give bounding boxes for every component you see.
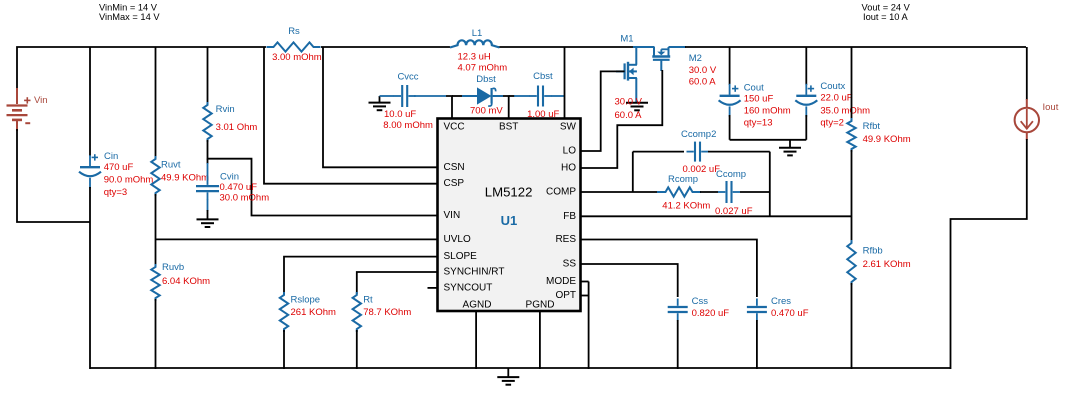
svg-text:Rfbb: Rfbb bbox=[863, 246, 883, 257]
wire Rvin to VIN pin bbox=[208, 140, 438, 216]
wire SLOPE row bbox=[284, 257, 438, 294]
capacitor Cvin bbox=[196, 178, 219, 200]
svg-text:8.00 mOhm: 8.00 mOhm bbox=[383, 120, 433, 131]
label Rvin bbox=[216, 104, 258, 133]
label Coutx bbox=[820, 81, 870, 129]
resistor Rvin bbox=[203, 102, 211, 142]
wire OPT stub bbox=[581, 295, 589, 297]
svg-text:qty=3: qty=3 bbox=[104, 187, 128, 198]
svg-text:700 mV: 700 mV bbox=[470, 106, 503, 117]
label Cin bbox=[104, 151, 118, 162]
capacitor Cres bbox=[747, 299, 767, 321]
label M2 bbox=[689, 53, 717, 88]
wire Ccomp to right junction bbox=[740, 191, 770, 193]
svg-text:MODE: MODE bbox=[546, 276, 576, 287]
wire Cin column bottom bbox=[89, 187, 91, 369]
resistor Ruvb bbox=[151, 264, 159, 301]
svg-text:22.0 uF: 22.0 uF bbox=[820, 93, 852, 104]
net label VinMin/VinMax bbox=[99, 3, 160, 22]
svg-text:VIN: VIN bbox=[444, 210, 461, 221]
label Css bbox=[692, 296, 730, 319]
ground at Cvcc bbox=[369, 96, 391, 110]
wire comp right junction bbox=[769, 152, 771, 217]
wire SW column bbox=[564, 47, 566, 118]
svg-text:Rcomp: Rcomp bbox=[668, 174, 698, 185]
wire RES row bbox=[581, 240, 757, 298]
wire Rvin column top bbox=[207, 47, 209, 104]
svg-text:160 mOhm: 160 mOhm bbox=[744, 105, 791, 116]
Cin plus mark bbox=[92, 154, 98, 160]
svg-text:VCC: VCC bbox=[444, 121, 465, 132]
wire Iout return bbox=[951, 139, 1027, 369]
svg-text:150 uF: 150 uF bbox=[744, 94, 774, 105]
svg-text:SW: SW bbox=[560, 121, 577, 132]
svg-text:3.00 mOhm: 3.00 mOhm bbox=[272, 52, 322, 63]
svg-text:LM5122: LM5122 bbox=[485, 184, 533, 199]
svg-text:Iout = 10 A: Iout = 10 A bbox=[863, 12, 909, 22]
capacitor Cbst bbox=[530, 86, 552, 107]
wire UVLO row bbox=[156, 238, 438, 240]
voltage source Vin battery bbox=[7, 88, 28, 131]
svg-text:30.0 mOhm: 30.0 mOhm bbox=[220, 193, 270, 204]
wire Css to ground rail bbox=[677, 320, 679, 369]
svg-text:COMP: COMP bbox=[546, 187, 576, 198]
label Rt bbox=[363, 295, 411, 318]
label Vin bbox=[34, 95, 48, 106]
wire bottom ground rail bbox=[90, 367, 951, 369]
svg-text:49.9 KOhm: 49.9 KOhm bbox=[161, 173, 209, 184]
svg-text:30.0 V: 30.0 V bbox=[689, 65, 717, 76]
wire FB row bbox=[581, 215, 852, 217]
wire Dbst cathode to BST pin bbox=[503, 96, 509, 118]
wire MODE/OPT to ground rail bbox=[588, 282, 590, 370]
svg-text:Cout: Cout bbox=[744, 83, 764, 94]
label Cbst bbox=[527, 71, 559, 120]
svg-text:0.470 uF: 0.470 uF bbox=[220, 182, 258, 193]
resistor Ruvt bbox=[151, 156, 159, 196]
svg-text:UVLO: UVLO bbox=[444, 234, 471, 245]
svg-text:SYNCHIN/RT: SYNCHIN/RT bbox=[444, 267, 505, 278]
svg-text:6.04 KOhm: 6.04 KOhm bbox=[162, 276, 210, 287]
wire Cvcc to VCC pin bbox=[414, 96, 452, 118]
Cout plus mark bbox=[732, 85, 738, 91]
svg-text:Cvcc: Cvcc bbox=[397, 72, 418, 83]
svg-text:RES: RES bbox=[555, 234, 576, 245]
svg-text:60.0 A: 60.0 A bbox=[689, 76, 717, 87]
wire Rt to ground rail bbox=[356, 330, 358, 369]
resistor Rslope bbox=[280, 292, 288, 332]
svg-text:CSP: CSP bbox=[444, 178, 465, 189]
wire Cvin bottom lead bbox=[207, 199, 209, 219]
wire top rail M2 to right corner bbox=[669, 46, 1027, 48]
label Ruvt bbox=[161, 160, 209, 184]
svg-text:3.01 Ohm: 3.01 Ohm bbox=[216, 122, 258, 133]
wire Cres to ground rail bbox=[756, 320, 758, 369]
label M1 bbox=[620, 34, 633, 45]
resistor Rs bbox=[267, 42, 321, 51]
svg-text:35.0 mOhm: 35.0 mOhm bbox=[820, 105, 870, 116]
capacitor Css bbox=[668, 299, 688, 321]
svg-text:Vout = 24 V: Vout = 24 V bbox=[862, 2, 911, 12]
wire Cout column top bbox=[729, 47, 731, 85]
pin labels left side bbox=[444, 121, 505, 293]
wire CSP sense bbox=[264, 47, 438, 184]
svg-text:Css: Css bbox=[692, 296, 709, 307]
label M1 values bbox=[615, 96, 643, 121]
transistor M2 bbox=[652, 47, 670, 71]
svg-text:FB: FB bbox=[563, 211, 576, 222]
ground below Cvin bbox=[197, 219, 219, 227]
wire Cout bottom row bbox=[730, 139, 807, 141]
capacitor Cvcc bbox=[394, 85, 416, 107]
wire Rfbt to FB row bbox=[851, 150, 853, 242]
resistor Rfbb bbox=[847, 240, 855, 285]
wire Cout column bottom bbox=[729, 115, 731, 140]
label Cvin bbox=[220, 171, 270, 203]
capacitor Ccomp bbox=[718, 181, 740, 203]
capacitor Cout bbox=[719, 84, 741, 117]
pin SYNCOUT stub bbox=[428, 287, 438, 289]
svg-text:M2: M2 bbox=[689, 53, 702, 64]
wire Coutx column bottom bbox=[805, 115, 807, 140]
svg-text:261 KOhm: 261 KOhm bbox=[291, 307, 336, 318]
svg-text:12.3 uH: 12.3 uH bbox=[458, 52, 491, 63]
wire AGND stub bbox=[475, 312, 477, 370]
wire PGND stub bbox=[539, 312, 541, 370]
label Cout bbox=[744, 83, 791, 129]
label Rfbt bbox=[863, 121, 911, 145]
label LM5122 bbox=[485, 184, 533, 199]
svg-text:SLOPE: SLOPE bbox=[444, 251, 478, 262]
pin label BST bbox=[499, 121, 518, 132]
label Ruvb bbox=[162, 262, 210, 287]
svg-text:78.7 KOhm: 78.7 KOhm bbox=[363, 307, 411, 318]
wire Coutx column top bbox=[805, 47, 807, 85]
svg-text:PGND: PGND bbox=[526, 299, 555, 310]
capacitor Coutx bbox=[795, 84, 817, 117]
svg-text:10.0 uF: 10.0 uF bbox=[384, 109, 416, 120]
resistor Rfbt bbox=[847, 118, 855, 152]
wire Rslope to ground rail bbox=[283, 330, 285, 369]
wire HO to M2 gate bbox=[581, 70, 663, 168]
wire Vin negative to Cin column bbox=[17, 129, 90, 222]
svg-text:qty=2: qty=2 bbox=[820, 118, 844, 129]
svg-text:Coutx: Coutx bbox=[820, 81, 845, 92]
current source Iout bbox=[1015, 99, 1039, 140]
capacitor Ccomp2 bbox=[687, 142, 709, 162]
wire Ruvb to ground rail bbox=[155, 299, 157, 369]
label Vin - sign bbox=[25, 122, 30, 124]
wire CSN sense bbox=[323, 47, 438, 167]
wire Ruvt to UVLO junction bbox=[155, 194, 157, 266]
svg-text:2.61 KOhm: 2.61 KOhm bbox=[863, 259, 911, 270]
label Dbst bbox=[470, 74, 503, 117]
svg-text:470 uF: 470 uF bbox=[104, 162, 134, 173]
resistor Rt bbox=[353, 292, 361, 332]
label Ccomp bbox=[715, 169, 753, 217]
label Ccomp2 bbox=[681, 129, 720, 175]
capacitor Cin bbox=[79, 155, 101, 188]
svg-text:LO: LO bbox=[563, 146, 577, 157]
wire Ccomp2 row left bbox=[633, 151, 684, 153]
wire Cbst to SW column bbox=[551, 95, 564, 97]
svg-text:VinMax = 14 V: VinMax = 14 V bbox=[99, 12, 160, 22]
wire COMP row bbox=[581, 191, 659, 193]
label U1 bbox=[501, 213, 518, 228]
label Cvcc bbox=[383, 72, 433, 131]
wire comp left junction bbox=[632, 152, 634, 192]
svg-text:Ruvb: Ruvb bbox=[162, 262, 184, 273]
pin labels right side bbox=[546, 121, 577, 301]
svg-text:90.0 mOhm: 90.0 mOhm bbox=[104, 175, 154, 186]
ground below M1 bbox=[626, 103, 648, 111]
svg-text:M1: M1 bbox=[620, 34, 633, 45]
wire Rfbt column top bbox=[851, 47, 853, 120]
svg-text:49.9 KOhm: 49.9 KOhm bbox=[863, 134, 911, 145]
ground below Cout bbox=[779, 140, 801, 156]
pin labels AGND PGND bbox=[463, 299, 555, 310]
svg-text:Rs: Rs bbox=[288, 26, 300, 37]
svg-text:Dbst: Dbst bbox=[476, 74, 496, 85]
svg-text:0.470 uF: 0.470 uF bbox=[771, 308, 809, 319]
svg-text:BST: BST bbox=[499, 121, 518, 132]
svg-text:L1: L1 bbox=[472, 28, 483, 39]
wire Iout top lead bbox=[1026, 47, 1028, 100]
wire top rail Rs to L1 bbox=[321, 46, 450, 48]
label Cin value bbox=[104, 162, 154, 198]
svg-text:Vin: Vin bbox=[34, 95, 48, 106]
svg-text:Cin: Cin bbox=[104, 151, 118, 162]
svg-text:Ccomp: Ccomp bbox=[716, 169, 746, 180]
svg-text:CSN: CSN bbox=[444, 162, 465, 173]
label L1 bbox=[458, 28, 508, 74]
ground main bbox=[497, 368, 519, 385]
svg-text:Rvin: Rvin bbox=[216, 104, 235, 115]
svg-text:0.820 uF: 0.820 uF bbox=[692, 308, 730, 319]
label Cres bbox=[771, 296, 809, 319]
wire BST to Cbst bbox=[509, 95, 530, 97]
diode Dbst bbox=[462, 88, 503, 106]
svg-text:Ccomp2: Ccomp2 bbox=[681, 129, 716, 140]
svg-text:OPT: OPT bbox=[555, 290, 576, 301]
label Vin + sign bbox=[24, 97, 30, 103]
wire Cvcc row bbox=[380, 95, 395, 97]
wire top rail L1 to M2 bbox=[498, 46, 655, 48]
wire SYNCHIN row bbox=[357, 272, 438, 294]
label Rfbb bbox=[863, 246, 911, 271]
svg-text:Rslope: Rslope bbox=[291, 295, 321, 306]
wire Ccomp2 row right bbox=[708, 151, 770, 153]
svg-text:Iout: Iout bbox=[1043, 102, 1059, 113]
svg-text:HO: HO bbox=[561, 163, 576, 174]
svg-text:Cres: Cres bbox=[771, 296, 791, 307]
svg-text:Rt: Rt bbox=[363, 295, 373, 306]
wire Ruvt column top bbox=[155, 47, 157, 158]
svg-text:SS: SS bbox=[563, 259, 577, 270]
op-amp U1 IC body LM5122 bbox=[438, 119, 581, 312]
wire Rcomp to Ccomp bbox=[700, 191, 718, 193]
svg-text:60.0 A: 60.0 A bbox=[615, 110, 643, 121]
svg-text:Cbst: Cbst bbox=[533, 71, 553, 82]
wire SS row bbox=[581, 264, 678, 297]
wire MODE stub bbox=[581, 281, 589, 283]
net label Vout/Iout bbox=[862, 2, 911, 22]
svg-text:30.0 V: 30.0 V bbox=[615, 96, 643, 107]
svg-text:Ruvt: Ruvt bbox=[161, 160, 181, 171]
svg-text:4.07 mOhm: 4.07 mOhm bbox=[458, 63, 508, 74]
svg-text:AGND: AGND bbox=[463, 299, 492, 310]
inductor L1 bbox=[450, 40, 500, 47]
svg-text:41.2 KOhm: 41.2 KOhm bbox=[662, 201, 710, 212]
label Rcomp bbox=[662, 174, 710, 211]
wire Cvin top lead bbox=[207, 159, 209, 178]
label Rs bbox=[272, 26, 322, 63]
transistor M1 bbox=[616, 47, 637, 103]
svg-text:Rfbt: Rfbt bbox=[863, 121, 881, 132]
svg-text:SYNCOUT: SYNCOUT bbox=[444, 282, 493, 293]
label Iout bbox=[1043, 102, 1059, 113]
wire Rfbb to ground rail bbox=[851, 283, 853, 369]
Coutx plus mark bbox=[808, 85, 814, 91]
wire top rail from Vin to Rs bbox=[17, 47, 266, 89]
resistor Rcomp bbox=[657, 187, 701, 196]
label Rslope bbox=[291, 295, 336, 318]
svg-text:Cvin: Cvin bbox=[220, 171, 239, 182]
svg-text:U1: U1 bbox=[501, 213, 518, 228]
wire Cin column top bbox=[89, 47, 91, 156]
wire LO to M1 gate bbox=[581, 71, 625, 151]
wire VCC to Dbst anode bbox=[452, 95, 463, 97]
svg-text:qty=13: qty=13 bbox=[744, 118, 773, 129]
